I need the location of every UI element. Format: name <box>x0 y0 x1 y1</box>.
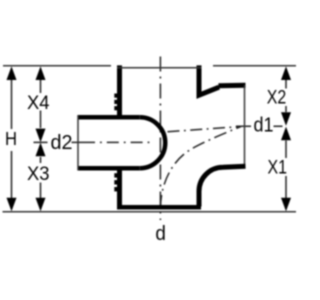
dimension line X1 <box>285 141 287 200</box>
d2 leader ticks <box>34 141 84 143</box>
svg-text:X1: X1 <box>268 157 288 179</box>
svg-text:X2: X2 <box>267 87 287 109</box>
arrow X4 bottom <box>36 129 46 143</box>
centerline branch curve <box>161 127 242 209</box>
svg-text:H: H <box>5 129 17 149</box>
spigot ribs lower <box>114 173 117 191</box>
arrow X2 bottom <box>281 112 291 126</box>
top extension line <box>3 65 296 67</box>
dimension line X2 <box>285 79 287 112</box>
socket face <box>77 115 79 170</box>
pipe top face <box>117 67 202 69</box>
svg-text:d2: d2 <box>51 132 73 154</box>
arrow X1 top <box>281 127 291 141</box>
centerline d2 horizontal <box>83 141 151 143</box>
svg-text:d: d <box>155 223 166 245</box>
pipe right wall <box>199 65 219 95</box>
arrow X1 bottom <box>281 198 291 212</box>
svg-text:X3: X3 <box>27 164 50 185</box>
svg-text:X4: X4 <box>27 93 50 114</box>
pipe left wall lower <box>117 171 122 209</box>
arrow X2 top <box>281 66 291 80</box>
branch bottom sweep <box>199 166 246 206</box>
socket bottom edge <box>78 166 140 171</box>
arrow H bottom <box>7 198 17 212</box>
arrow X3 top <box>36 143 46 157</box>
arrow X3 bottom <box>36 198 46 212</box>
pipe bottom face <box>117 205 201 210</box>
socket dome <box>140 117 165 168</box>
dimension line X4 <box>40 78 42 128</box>
arrow X4 top <box>36 66 46 80</box>
pipe left wall upper <box>117 65 122 115</box>
dimension line H <box>11 78 13 199</box>
branch top line <box>219 83 246 89</box>
branch mouth face <box>244 85 246 168</box>
centerline d vertical <box>159 57 161 221</box>
centerline d1 sloped <box>168 127 239 132</box>
socket top edge <box>78 115 140 120</box>
bottom extension line <box>3 211 297 213</box>
spigot ribs upper <box>114 94 117 111</box>
d1 leader ticks <box>236 125 283 127</box>
arrow H top <box>7 66 17 80</box>
dimension line X3 <box>40 157 42 199</box>
svg-text:d1: d1 <box>254 115 274 137</box>
